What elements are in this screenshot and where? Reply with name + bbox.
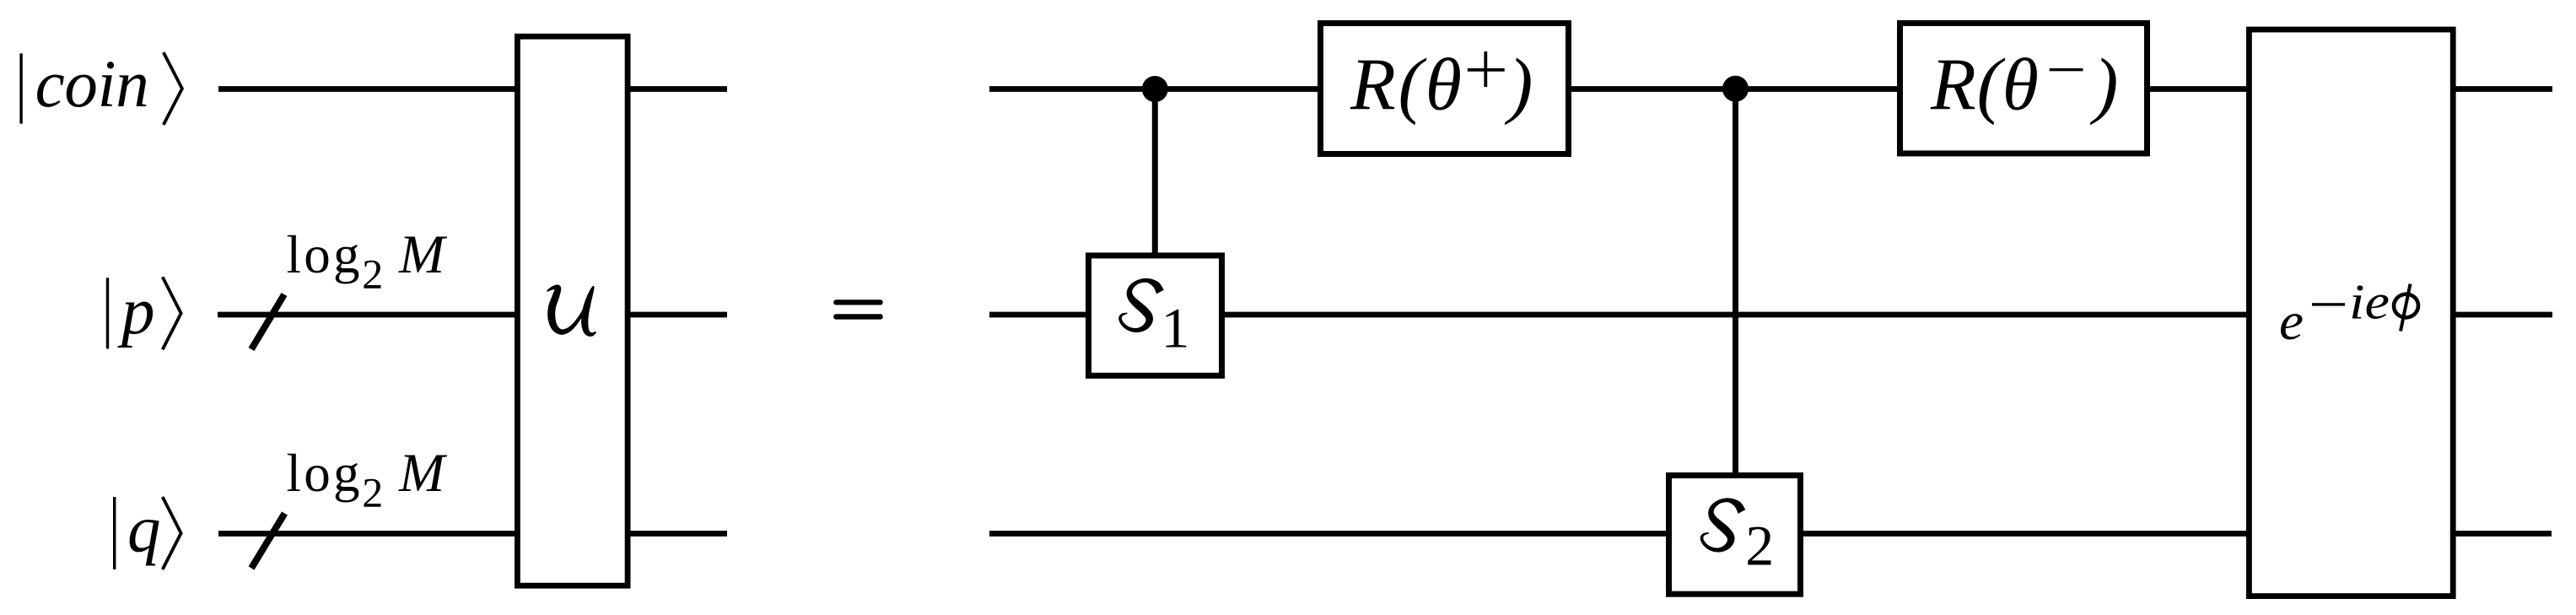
- svg-text:log: log: [287, 444, 360, 503]
- svg-text:): ): [2089, 45, 2118, 127]
- svg-text:2: 2: [1745, 513, 1774, 577]
- svg-text:R(θ: R(θ: [1350, 45, 1462, 127]
- svg-text:e: e: [2279, 291, 2304, 351]
- svg-text:log: log: [287, 225, 360, 284]
- svg-text:M: M: [398, 443, 448, 504]
- svg-text:q: q: [127, 494, 161, 567]
- svg-text:R(θ: R(θ: [1930, 45, 2039, 127]
- svg-text:ie: ie: [2349, 274, 2390, 330]
- svg-text:p: p: [117, 275, 155, 348]
- svg-text:1: 1: [1161, 296, 1190, 360]
- svg-text:2: 2: [362, 251, 383, 298]
- svg-text:2: 2: [362, 469, 383, 516]
- svg-text:): ): [1504, 45, 1533, 127]
- svg-text:coin: coin: [35, 48, 149, 121]
- svg-text:M: M: [398, 224, 448, 285]
